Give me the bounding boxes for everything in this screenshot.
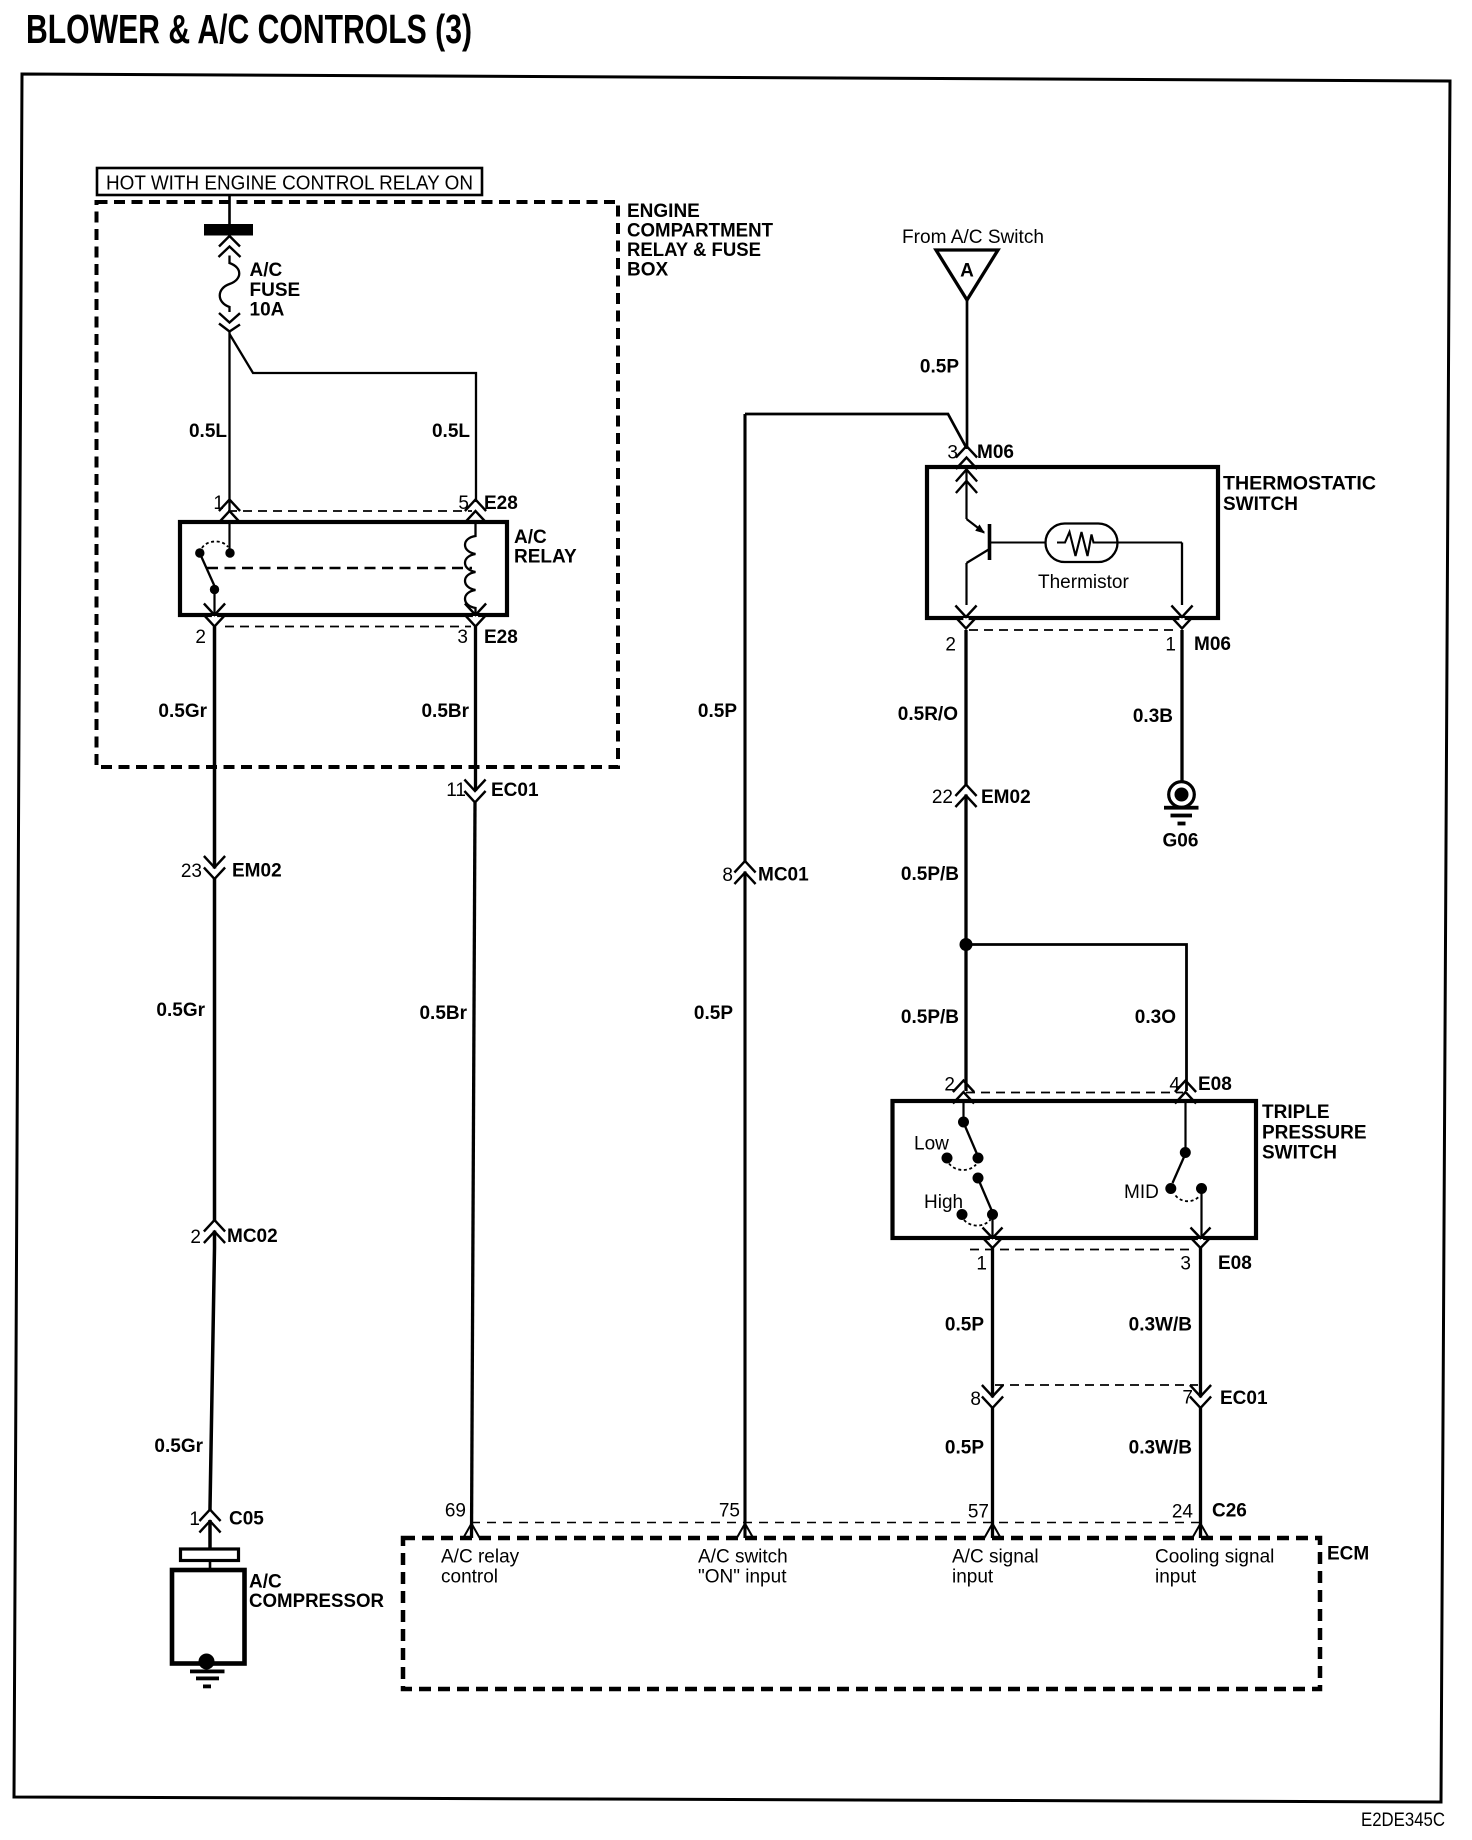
junction node [960,938,973,951]
wire 0.5L left (fuse to relay pin 1) [228,331,230,510]
svg-text:5: 5 [458,493,469,514]
svg-text:TRIPLE: TRIPLE [1262,1102,1330,1123]
svg-text:0.5L: 0.5L [432,421,470,442]
A/C compressor box [172,1570,245,1664]
wire 0.5Br (relay pin3 to ECM 69) [474,627,477,792]
ECM entry 24 [1192,1524,1209,1539]
compressor ground [199,1654,215,1670]
svg-text:THERMOSTATIC: THERMOSTATIC [1223,474,1376,495]
svg-text:PRESSURE: PRESSURE [1262,1123,1367,1144]
svg-text:0.5Br: 0.5Br [421,701,469,722]
connector 2 MC02 [212,1221,217,1231]
svg-text:"ON" input: "ON" input [698,1567,787,1588]
E08 top dashed link [966,1092,1183,1094]
TPS MID switch [1184,1103,1186,1148]
svg-text:22: 22 [932,787,953,808]
svg-text:C26: C26 [1212,1501,1247,1522]
svg-text:2: 2 [944,1075,955,1096]
svg-text:FUSE: FUSE [250,280,301,301]
connector 7 EC01 [1198,1398,1203,1408]
wire clutch to compressor [209,1561,212,1571]
svg-text:1: 1 [1165,635,1176,656]
ground G06 [1169,782,1195,808]
thermostatic pin 1 connector [1179,618,1184,628]
ECM entry 57 [984,1524,1001,1539]
svg-text:M06: M06 [977,442,1014,463]
svg-text:BOX: BOX [627,260,669,281]
svg-text:0.5P: 0.5P [694,1003,733,1024]
svg-text:MC02: MC02 [227,1226,278,1247]
svg-text:COMPARTMENT: COMPARTMENT [627,221,773,242]
svg-text:E08: E08 [1218,1253,1252,1274]
relay bottom connector dashed link [225,626,471,628]
relay mechanical dashed link [207,567,472,570]
triangle connector A [936,250,998,300]
svg-text:SWITCH: SWITCH [1223,494,1298,515]
svg-text:SWITCH: SWITCH [1262,1143,1337,1164]
TPS pin 1 connector [990,1239,995,1247]
TPS pin 4 connector [1175,1081,1196,1104]
connector 22 EM02 [963,786,968,795]
svg-text:0.5Gr: 0.5Gr [154,1436,203,1457]
wire 0.5P (A/C signal) [991,1248,994,1538]
svg-text:4: 4 [1169,1075,1180,1096]
fuse A/C FUSE 10A [219,236,241,257]
svg-text:A/C switch: A/C switch [698,1547,788,1568]
svg-text:0.5Gr: 0.5Gr [156,1000,205,1021]
svg-text:0.5P: 0.5P [698,701,737,722]
svg-text:0.3W/B: 0.3W/B [1129,1315,1192,1336]
svg-text:0.5Gr: 0.5Gr [158,701,207,722]
svg-text:MID: MID [1124,1182,1159,1203]
svg-text:3: 3 [1180,1254,1191,1275]
wire 0.5P from A/C switch [966,300,969,449]
svg-text:M06: M06 [1194,634,1231,655]
wire 0.5P/B lower [964,945,967,1092]
svg-text:From A/C Switch: From A/C Switch [902,227,1044,248]
svg-text:E08: E08 [1198,1074,1232,1095]
svg-text:23: 23 [181,861,202,882]
svg-text:0.5P: 0.5P [945,1438,984,1459]
TPS pin 2 connector [953,1081,974,1104]
relay switch contacts [228,522,230,549]
ECM box (dashed) [403,1538,1320,1689]
svg-text:E28: E28 [484,627,518,648]
thermostatic pin 2 connector [963,618,968,628]
svg-text:0.5P/B: 0.5P/B [901,1007,959,1028]
svg-text:E28: E28 [484,493,518,514]
svg-text:0.5R/O: 0.5R/O [898,704,958,725]
svg-text:3: 3 [457,627,468,648]
thermostatic bottom dashed link [969,629,1178,631]
ECM entry 75 [737,1524,754,1539]
thermostatic switch box [927,467,1218,618]
TPS pin 3 connector [1198,1239,1203,1247]
svg-text:RELAY: RELAY [514,547,577,568]
thermostatic switch transistor [956,470,977,494]
svg-text:BLOWER & A/C CONTROLS (3): BLOWER & A/C CONTROLS (3) [26,6,472,52]
svg-text:HOT WITH ENGINE CONTROL RELAY: HOT WITH ENGINE CONTROL RELAY ON [106,173,473,195]
svg-text:75: 75 [719,1501,740,1522]
relay top connector dashed link [228,510,472,512]
relay pin 5 connector [465,500,486,523]
svg-text:10A: 10A [250,300,285,321]
svg-text:69: 69 [445,1501,466,1522]
connector 1 C05 [207,1511,212,1521]
fuse holder bar [204,224,253,236]
svg-text:Thermistor: Thermistor [1038,572,1129,593]
svg-text:input: input [952,1567,994,1588]
wire 0.5Gr (relay pin2 to compressor) [213,627,217,1249]
ECM top thin dashed link [471,1522,1199,1524]
svg-text:0.5P: 0.5P [920,357,959,378]
relay A/C RELAY box [180,522,507,615]
svg-text:High: High [924,1192,963,1213]
svg-text:57: 57 [968,1502,989,1523]
svg-text:RELAY & FUSE: RELAY & FUSE [627,240,761,261]
HOT WITH ENGINE CONTROL RELAY ON box [97,168,482,195]
svg-text:0.5P/B: 0.5P/B [901,864,959,885]
relay coil [465,522,476,615]
svg-text:Low: Low [914,1134,949,1155]
svg-text:2: 2 [190,1227,201,1248]
wire hot feed to fuse [228,195,231,226]
A/C compressor clutch coil [181,1549,239,1561]
connector 23 EM02 [212,869,217,879]
svg-text:2: 2 [945,635,956,656]
wire 0.3B to ground [1180,630,1183,782]
svg-text:1: 1 [213,493,224,514]
svg-text:EM02: EM02 [981,787,1031,808]
svg-text:8: 8 [970,1389,981,1410]
svg-text:MC01: MC01 [758,865,809,886]
svg-text:EC01: EC01 [491,780,539,801]
relay pin 3 connector [473,616,478,626]
svg-text:1: 1 [189,1509,200,1530]
wire 0.5P (A/C switch ON input, MC01 column) [745,414,967,448]
svg-text:8: 8 [722,865,733,886]
thermistor [991,541,1046,543]
svg-text:A/C: A/C [514,527,547,548]
svg-text:A/C relay: A/C relay [441,1547,520,1568]
svg-text:EC01: EC01 [1220,1388,1268,1409]
svg-text:Cooling signal: Cooling signal [1155,1547,1274,1568]
svg-text:7: 7 [1182,1388,1193,1409]
EC01 dashed link [995,1384,1198,1386]
TPS low/high switch chain [962,1103,964,1118]
connector 11 EC01 [472,792,477,802]
svg-text:control: control [441,1567,498,1588]
svg-text:0.3W/B: 0.3W/B [1129,1438,1192,1459]
svg-text:COMPRESSOR: COMPRESSOR [249,1591,384,1612]
svg-text:2: 2 [195,627,206,648]
svg-text:input: input [1155,1567,1197,1588]
connector 8 EC01 [990,1398,995,1408]
connector 3 M06 [956,446,977,469]
svg-text:ENGINE: ENGINE [627,201,700,222]
svg-text:0.5P: 0.5P [945,1315,984,1336]
svg-text:3: 3 [947,443,958,464]
svg-text:A/C: A/C [250,260,283,281]
svg-text:0.5Br: 0.5Br [419,1003,467,1024]
wire 0.5L right branch (fuse to relay pin 5) [230,334,477,502]
svg-text:C05: C05 [229,1509,264,1530]
svg-text:0.3O: 0.3O [1135,1007,1176,1028]
svg-text:ECM: ECM [1327,1544,1369,1565]
relay pin 2 connector [212,616,217,626]
wire 0.5R/O 0.5P/B (thermo pin2 down) [964,630,967,945]
svg-text:0.3B: 0.3B [1133,706,1173,727]
svg-text:0.5L: 0.5L [189,421,227,442]
svg-text:1: 1 [976,1254,987,1275]
svg-text:E2DE345C: E2DE345C [1361,1810,1445,1831]
svg-text:G06: G06 [1163,831,1199,852]
svg-text:A: A [960,261,974,282]
wire 0.3W/B (cooling signal) [1199,1248,1202,1538]
connector 8 MC01 [742,862,747,872]
svg-text:24: 24 [1172,1502,1194,1523]
triple pressure switch box [893,1101,1257,1238]
svg-text:A/C signal: A/C signal [952,1547,1039,1568]
ECM entry 69 [463,1524,480,1539]
relay pin 1 connector [219,500,240,523]
wire 0.3O branch [966,945,1187,1092]
svg-text:11: 11 [446,780,466,801]
svg-text:EM02: EM02 [232,861,282,882]
svg-text:A/C: A/C [249,1572,282,1593]
engine compartment relay & fuse box (dashed) [97,202,619,767]
TPS bottom dashed link [970,1249,1190,1251]
